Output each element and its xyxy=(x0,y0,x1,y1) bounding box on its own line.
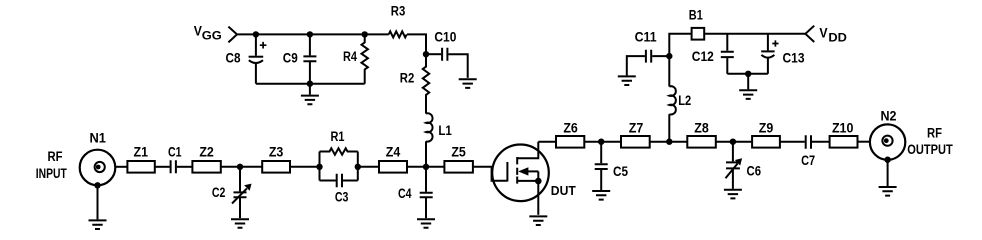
node VDD ground junction xyxy=(745,71,751,77)
svg-text:C3: C3 xyxy=(335,190,349,205)
svg-text:DD: DD xyxy=(828,33,847,45)
resistor Z3 xyxy=(262,161,290,173)
wire N1 to ground xyxy=(97,185,99,219)
resistor Z9 xyxy=(752,136,780,148)
capacitor C11 xyxy=(646,50,651,63)
ground right of C10 xyxy=(459,79,477,88)
resistor Z8 xyxy=(687,136,716,148)
wire C7 to Z10 xyxy=(812,141,830,143)
wire C1 to Z2 xyxy=(177,166,193,168)
svg-text:N1: N1 xyxy=(89,130,106,145)
node C2 junction xyxy=(237,164,243,170)
svg-text:C10: C10 xyxy=(434,29,456,44)
wire N2 to ground xyxy=(887,160,889,186)
svg-text:C4: C4 xyxy=(398,186,412,201)
node C10 junction xyxy=(423,51,429,57)
wire Z8 to Z9 xyxy=(716,141,752,143)
wire node to C4 xyxy=(425,167,427,192)
svg-text:R2: R2 xyxy=(400,71,415,86)
ground below C4 xyxy=(417,219,435,228)
node at N1 bottom xyxy=(94,182,100,188)
capacitor C13 (polarized) xyxy=(761,34,778,74)
node C5 junction xyxy=(598,139,604,145)
svg-text:Z8: Z8 xyxy=(694,121,709,136)
wire C4 to ground xyxy=(425,197,427,218)
ground below N2 xyxy=(879,187,897,196)
inductor L2 xyxy=(669,86,676,114)
wire to ground xyxy=(309,84,311,95)
ferrite bead B1 xyxy=(692,28,705,40)
svg-text:R3: R3 xyxy=(391,4,406,19)
resistor Z1 xyxy=(127,161,154,173)
terminal VGG arrow xyxy=(228,27,237,43)
wire Z3 to R1C3 xyxy=(290,166,320,168)
svg-text:RF: RF xyxy=(48,149,63,164)
svg-text:C5: C5 xyxy=(613,164,628,179)
ground below DUT xyxy=(529,216,547,225)
svg-text:N2: N2 xyxy=(881,109,897,124)
wire Z5 to DUT gate xyxy=(473,167,508,181)
wire Z1 to C1 xyxy=(155,166,170,168)
wire L2 to output rail xyxy=(668,114,670,142)
node C11/L2 junction xyxy=(666,53,672,59)
label VGG xyxy=(194,24,222,43)
wire node to C6 xyxy=(732,142,734,162)
svg-text:L2: L2 xyxy=(678,93,691,108)
resistor R4 xyxy=(362,34,368,83)
node L1/C4 junction xyxy=(423,164,429,170)
wire L2 junction down through L2 to output rail xyxy=(668,56,670,86)
connector N2 xyxy=(870,124,905,159)
wire R1C3 to Z4 xyxy=(358,166,379,168)
wire B1 to VDD terminal xyxy=(704,33,805,35)
wire Z6 to Z7 xyxy=(584,141,621,143)
svg-text:C2: C2 xyxy=(212,185,226,200)
ground below C9 xyxy=(301,96,319,105)
wire VDD bottom rail xyxy=(727,73,768,75)
svg-text:C8: C8 xyxy=(226,51,241,66)
capacitor C12 xyxy=(721,34,734,74)
svg-text:V: V xyxy=(194,24,202,39)
capacitor C8 (polarized) xyxy=(249,34,267,83)
svg-text:C9: C9 xyxy=(283,51,298,66)
wire R3 to C10 junction xyxy=(407,34,426,54)
wire Z7 to Z8 xyxy=(650,141,688,143)
resistor Z10 xyxy=(830,136,858,148)
terminal VDD arrow xyxy=(805,26,814,42)
capacitor C4 xyxy=(420,193,433,198)
wire junction up to VDD rail xyxy=(669,34,691,56)
svg-text:B1: B1 xyxy=(689,7,703,22)
svg-text:C11: C11 xyxy=(635,30,657,45)
svg-text:Z1: Z1 xyxy=(134,145,149,160)
resistor Z6 xyxy=(556,136,584,148)
wire ground to C11 xyxy=(627,56,645,75)
svg-text:C1: C1 xyxy=(168,145,182,160)
wire VGG rail xyxy=(237,33,389,35)
svg-text:INPUT: INPUT xyxy=(36,166,68,181)
wire C5 to ground xyxy=(600,169,602,190)
wire C11 to L2 junction xyxy=(652,55,669,57)
capacitor C10 xyxy=(426,48,468,78)
wire node to C5 xyxy=(600,142,602,164)
svg-text:RF: RF xyxy=(927,126,942,141)
capacitor C9 xyxy=(303,34,316,83)
node R4 top xyxy=(362,31,368,37)
capacitor C5 xyxy=(595,164,608,169)
svg-text:V: V xyxy=(819,26,827,41)
transistor DUT xyxy=(492,142,549,215)
capacitor C1 xyxy=(171,160,176,173)
ground below C6 xyxy=(724,190,742,199)
wire VGG bottom rail xyxy=(256,83,365,85)
svg-text:R1: R1 xyxy=(331,129,345,144)
svg-text:GG: GG xyxy=(202,31,222,43)
node C8 top xyxy=(253,31,259,37)
ground left of C11 xyxy=(618,76,636,85)
resistor Z2 xyxy=(192,161,220,173)
wire Z10 to N2 xyxy=(858,141,870,143)
resistor Z5 xyxy=(444,161,473,173)
wire drain to Z6 xyxy=(538,141,556,143)
wire node to C2 xyxy=(239,167,241,192)
svg-text:Z5: Z5 xyxy=(451,145,466,160)
capacitor C6 (variable) xyxy=(726,158,743,178)
wire Z9 to C7 xyxy=(780,141,805,143)
svg-text:Z7: Z7 xyxy=(629,121,644,136)
svg-text:C13: C13 xyxy=(783,50,805,65)
capacitor C3 xyxy=(320,174,358,188)
svg-text:C12: C12 xyxy=(692,49,714,64)
label RF INPUT xyxy=(36,149,68,181)
ground below C5 xyxy=(592,191,610,200)
svg-text:OUTPUT: OUTPUT xyxy=(907,142,953,157)
capacitor C2 (variable) xyxy=(232,184,252,204)
resistor R2 xyxy=(423,54,429,113)
resistor Z4 xyxy=(379,161,407,173)
svg-text:R4: R4 xyxy=(343,49,357,64)
svg-text:L1: L1 xyxy=(438,123,452,138)
node C6 junction xyxy=(730,139,736,145)
label RF OUTPUT xyxy=(907,126,953,158)
svg-text:Z2: Z2 xyxy=(199,145,214,160)
wire C6 to ground xyxy=(732,168,734,188)
node R1C3 left xyxy=(316,164,322,170)
node L2 junction xyxy=(666,139,672,145)
resistor R1 (parallel with C3) xyxy=(320,148,358,180)
svg-text:Z10: Z10 xyxy=(832,121,854,136)
svg-text:Z3: Z3 xyxy=(269,145,284,160)
svg-text:C6: C6 xyxy=(747,164,762,179)
resistor R3 xyxy=(389,31,407,37)
svg-text:Z6: Z6 xyxy=(563,121,578,136)
ground below N1 xyxy=(89,220,107,229)
ground below VDD rail xyxy=(739,90,757,99)
capacitor C7 xyxy=(806,135,811,149)
wire to ground xyxy=(747,74,749,90)
ground below C2 xyxy=(231,219,249,228)
node ground junction xyxy=(307,81,313,87)
wire Z2 to Z3 xyxy=(221,166,262,168)
node C9 top xyxy=(307,31,313,37)
connector N1 xyxy=(80,150,116,186)
svg-text:Z4: Z4 xyxy=(386,145,401,160)
node R1C3 right xyxy=(355,164,361,170)
wire C2 to ground xyxy=(239,197,241,218)
node at N2 bottom xyxy=(884,157,890,163)
wire Z4 to Z5 xyxy=(407,166,444,168)
resistor Z7 xyxy=(621,136,650,148)
svg-text:Z9: Z9 xyxy=(759,121,774,136)
label VDD xyxy=(819,26,847,45)
svg-text:DUT: DUT xyxy=(551,184,576,198)
inductor L1 xyxy=(426,113,433,141)
svg-text:C7: C7 xyxy=(801,153,815,168)
wire L1 to input rail xyxy=(425,141,427,167)
wire N1 to Z1 xyxy=(115,166,127,168)
